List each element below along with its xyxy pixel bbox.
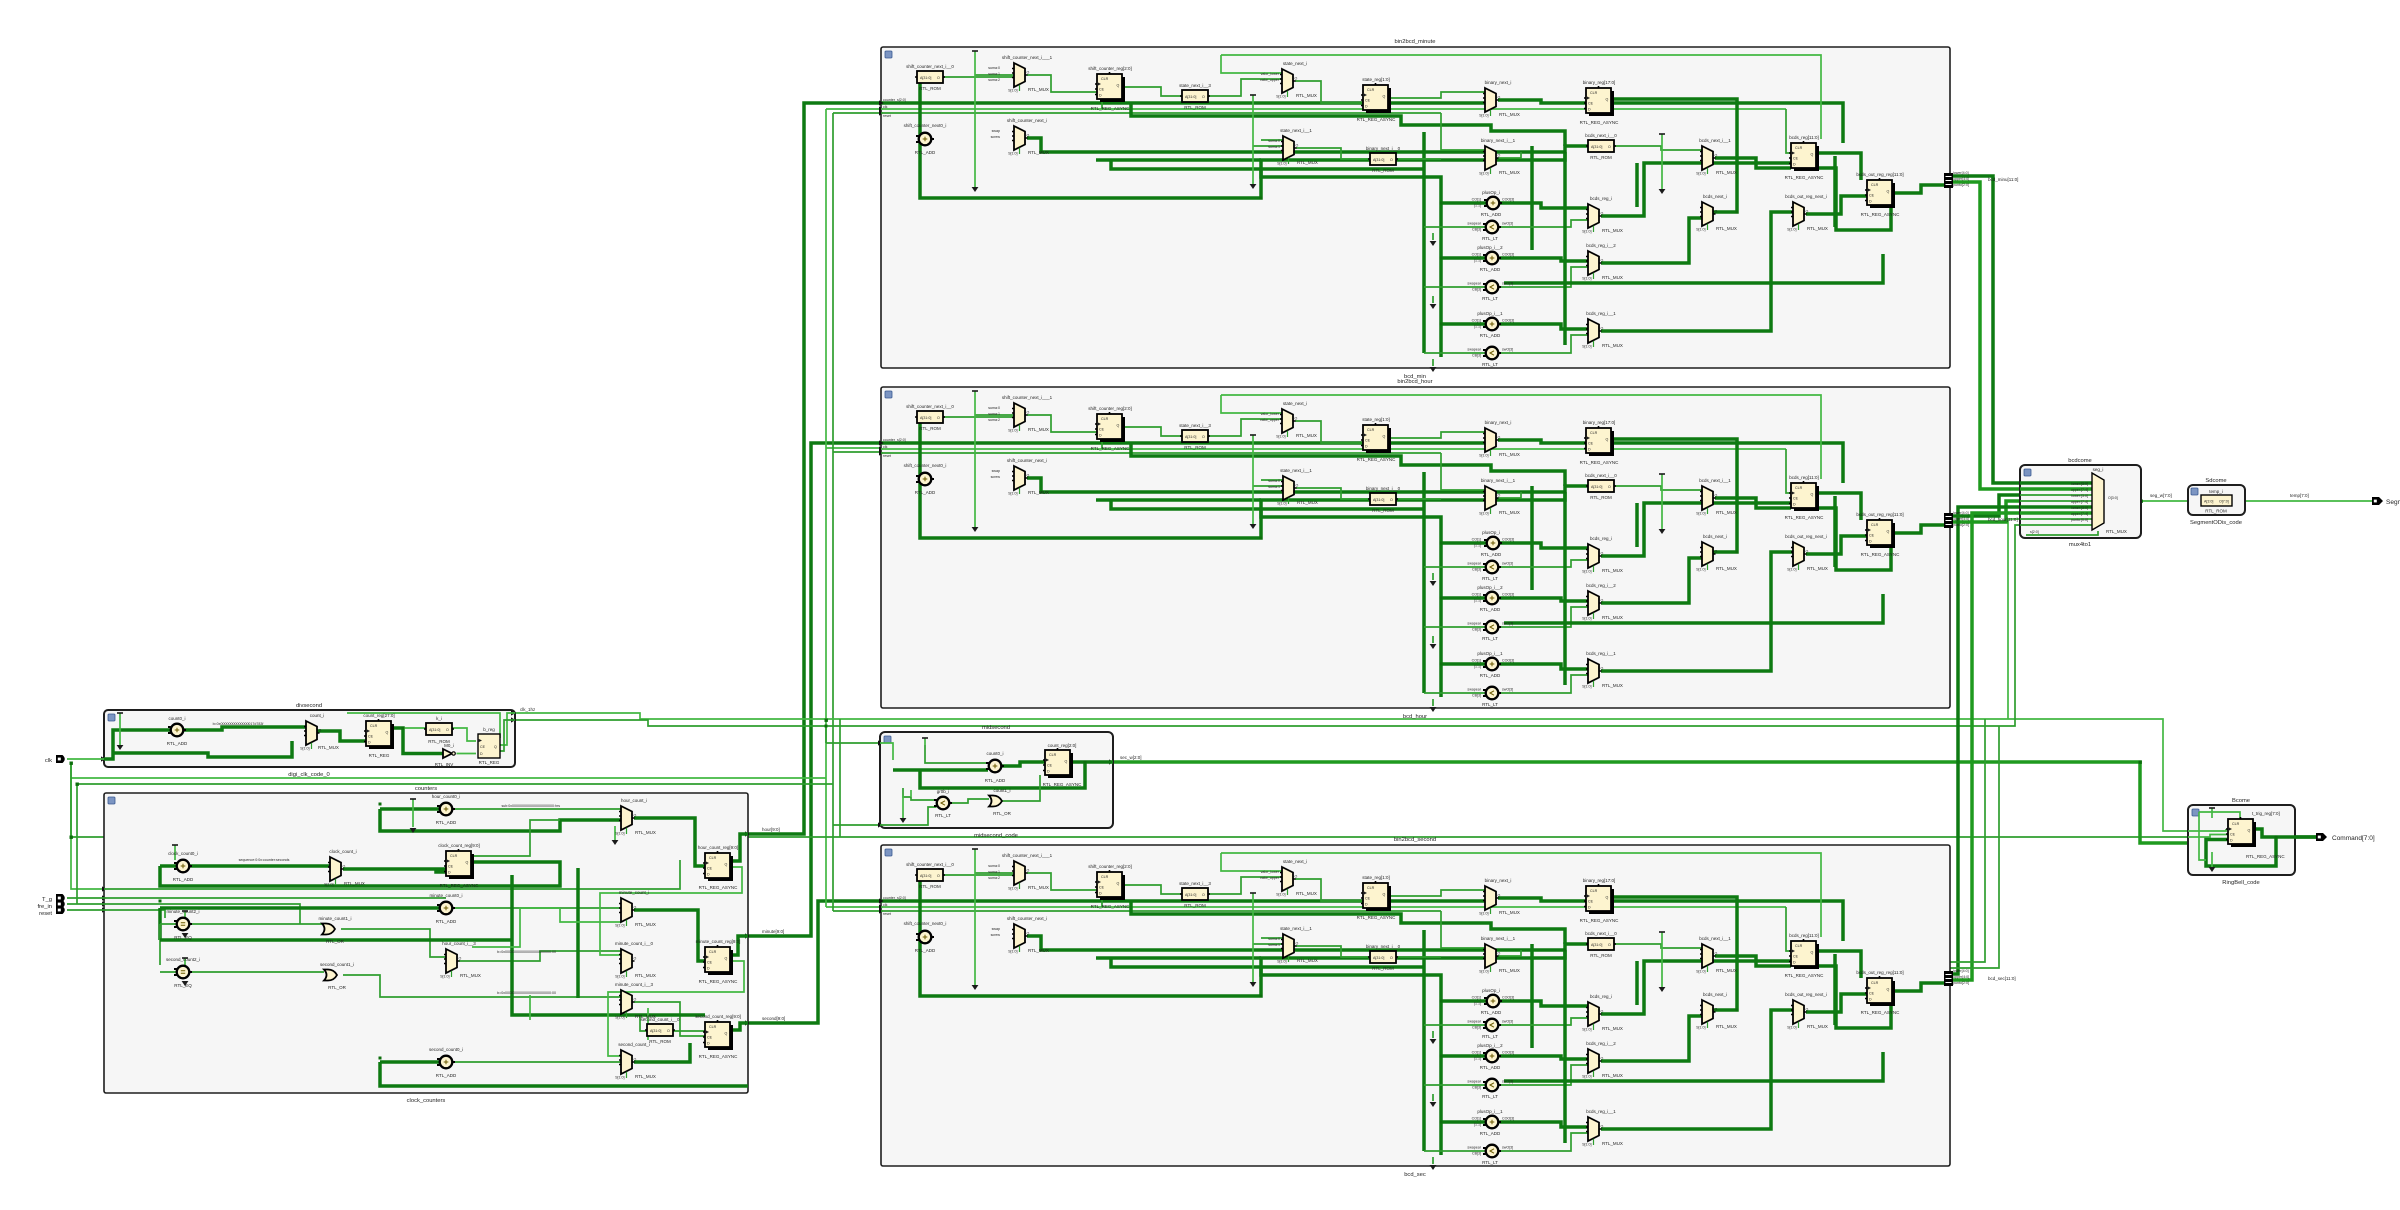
svg-text:seg_w[7:0]: seg_w[7:0] bbox=[2150, 493, 2172, 498]
wire clk long distribution bbox=[71, 763, 104, 889]
wire second eq/or row bbox=[190, 971, 325, 973]
wire bcd hour out to mux bbox=[1950, 495, 2020, 516]
svg-text:second_count_reg[9:0]: second_count_reg[9:0] bbox=[695, 1014, 741, 1019]
wire add in thick bbox=[893, 768, 988, 772]
svg-text:minute_count_i__0: minute_count_i__0 bbox=[615, 941, 654, 946]
wire reg q out bbox=[1071, 760, 1113, 764]
svg-text:RTL_MUX: RTL_MUX bbox=[2106, 529, 2127, 534]
svg-text:clock_count0_i: clock_count0_i bbox=[168, 851, 198, 856]
wire clk 1hz trunk bbox=[825, 109, 827, 907]
svg-text:sec_w[2:0]: sec_w[2:0] bbox=[1120, 755, 1142, 760]
wire bottom stub bbox=[880, 807, 937, 825]
svg-text:bcd_sec[11:0]: bcd_sec[11:0] bbox=[1988, 976, 2016, 981]
svg-text:RTL_OR: RTL_OR bbox=[328, 985, 346, 990]
reg minute_count_reg[9:0] bbox=[703, 945, 733, 975]
svg-text:punto[2:0]: punto[2:0] bbox=[1953, 523, 1969, 527]
svg-text:RTL_MUX: RTL_MUX bbox=[318, 745, 339, 750]
svg-text:A[3:0]: A[3:0] bbox=[2204, 500, 2213, 504]
svg-text:RTL_EQ: RTL_EQ bbox=[174, 935, 192, 940]
lt gr0b_i bbox=[934, 797, 952, 810]
mux second_count_i bbox=[615, 1050, 636, 1080]
svg-text:bcdcome: bcdcome bbox=[2068, 458, 2092, 464]
svg-text:lower[4:0]: lower[4:0] bbox=[1953, 171, 1969, 175]
svg-text:temp_i: temp_i bbox=[2209, 489, 2223, 494]
wire reg2 q out bbox=[498, 713, 515, 745]
svg-text:midsecond: midsecond bbox=[982, 725, 1010, 731]
svg-text:second_count2_i: second_count2_i bbox=[166, 957, 200, 962]
svg-text:b=0x00000000000000000000000:00: b=0x00000000000000000000000:00 bbox=[497, 950, 556, 954]
wire top bright loop bbox=[347, 713, 500, 738]
svg-text:lower:[3:0]: lower:[3:0] bbox=[2071, 494, 2088, 498]
wire clk in bbox=[2188, 829, 2226, 831]
svg-text:reset: reset bbox=[39, 911, 52, 917]
svg-text:Command[7:0]: Command[7:0] bbox=[2332, 835, 2375, 842]
svg-text:upper:[7:4]: upper:[7:4] bbox=[2071, 488, 2088, 492]
wire mux inputs bbox=[2020, 481, 2092, 485]
output port SegmentO bbox=[2372, 497, 2383, 505]
reg hour_count_reg[9:0] bbox=[703, 851, 733, 881]
svg-text:SegmentO[7:0]: SegmentO[7:0] bbox=[2386, 499, 2400, 506]
svg-text:Bcome: Bcome bbox=[2232, 798, 2250, 804]
wire add top in bbox=[925, 745, 988, 763]
svg-text:hour_count_i__3: hour_count_i__3 bbox=[442, 941, 476, 946]
svg-text:count0_i: count0_i bbox=[986, 751, 1003, 756]
svg-text:O[3:0]: O[3:0] bbox=[2108, 496, 2118, 500]
rom temp_i bbox=[2201, 495, 2232, 506]
wire reset trunk bbox=[832, 113, 834, 911]
wire mdsecond clk stub bbox=[826, 742, 880, 744]
svg-text:RTL_REG: RTL_REG bbox=[369, 753, 390, 758]
svg-text:RTL_REG_ASYNC: RTL_REG_ASYNC bbox=[1043, 782, 1082, 787]
svg-text:upper:[7:4]: upper:[7:4] bbox=[2071, 512, 2088, 516]
svg-text:RTL_REG_ASYNC: RTL_REG_ASYNC bbox=[699, 979, 738, 984]
svg-text:RTL_INV: RTL_INV bbox=[435, 762, 453, 767]
mux seg_i bbox=[2092, 473, 2104, 530]
svg-text:RTL_MUX: RTL_MUX bbox=[635, 973, 656, 978]
svg-text:bcd_hour: bcd_hour bbox=[1403, 714, 1427, 720]
svg-text:minute_count_reg[9:0]: minute_count_reg[9:0] bbox=[696, 939, 741, 944]
svg-text:RTL_ADD: RTL_ADD bbox=[985, 778, 1006, 783]
add minute_count0_i bbox=[437, 902, 455, 915]
wire rom out to reg2 bbox=[452, 728, 476, 741]
input port hour_in bbox=[56, 894, 65, 902]
svg-text:b=0x00000000000000000000000:00: b=0x00000000000000000000000:00 bbox=[497, 991, 556, 995]
svg-text:lower[4:0]: lower[4:0] bbox=[1953, 969, 1969, 973]
wire select bbox=[2026, 531, 2098, 535]
wire mid thick verticals bbox=[512, 875, 705, 1015]
const left bbox=[119, 713, 121, 745]
svg-text:count1_i: count1_i bbox=[993, 788, 1010, 793]
mux minute_count_i__0 bbox=[615, 949, 636, 979]
svg-text:RTL_MUX: RTL_MUX bbox=[635, 922, 656, 927]
input port clk bbox=[56, 755, 65, 763]
mux hour_count_i bbox=[615, 806, 636, 836]
svg-text:T_g: T_g bbox=[42, 897, 52, 903]
svg-text:count_i: count_i bbox=[310, 713, 325, 718]
svg-text:upper[4:0]: upper[4:0] bbox=[1953, 177, 1969, 181]
mux clock_count_i bbox=[324, 857, 345, 887]
svg-text:clk_1hz: clk_1hz bbox=[520, 707, 536, 712]
svg-text:punto[2:0]: punto[2:0] bbox=[1953, 183, 1969, 187]
svg-text:count_reg[27:0]: count_reg[27:0] bbox=[363, 713, 394, 718]
reg count_reg[2:0] bbox=[1043, 748, 1073, 778]
rom k_i bbox=[424, 723, 454, 735]
svg-text:t_trig_reg[7:0]: t_trig_reg[7:0] bbox=[2252, 811, 2280, 816]
svg-text:Sdcome: Sdcome bbox=[2205, 478, 2226, 484]
svg-text:minute_count_i: minute_count_i bbox=[619, 890, 650, 895]
svg-text:bcd_sec: bcd_sec bbox=[1404, 1172, 1426, 1178]
add count0_i bbox=[168, 724, 186, 737]
mux count_i bbox=[300, 721, 321, 751]
add hour_count0_i bbox=[437, 803, 455, 816]
svg-text:RTL_ADD: RTL_ADD bbox=[167, 741, 188, 746]
wire divsecond out 2 bbox=[515, 525, 2020, 726]
wire reset long bottom bbox=[71, 836, 2188, 838]
svg-text:hour[9:0]: hour[9:0] bbox=[762, 827, 780, 832]
svg-text:midsecond_code: midsecond_code bbox=[974, 833, 1018, 839]
wire second bus trunk bbox=[748, 901, 881, 1023]
svg-text:SegmentODis_code: SegmentODis_code bbox=[2190, 520, 2242, 526]
wire div loop bottom bbox=[113, 741, 292, 757]
svg-text:divsecond: divsecond bbox=[296, 703, 322, 709]
add count0_i bbox=[986, 760, 1004, 773]
svg-text:RTL_ROM: RTL_ROM bbox=[2205, 509, 2227, 514]
svg-text:RTL_REG: RTL_REG bbox=[479, 760, 500, 765]
output port Command bbox=[2316, 833, 2327, 841]
wire reg q loop bbox=[920, 762, 1085, 788]
wire hour reg q bbox=[731, 834, 748, 861]
wire q out jog bbox=[2253, 829, 2320, 837]
wire or out up bbox=[1002, 775, 1040, 801]
svg-text:temp[7:0]: temp[7:0] bbox=[2290, 493, 2309, 498]
svg-text:gr0b_i: gr0b_i bbox=[937, 789, 950, 794]
wire inputs bbox=[102, 886, 107, 891]
svg-text:hour_count_reg[9:0]: hour_count_reg[9:0] bbox=[698, 845, 738, 850]
or count1_i bbox=[989, 796, 1002, 807]
svg-text:RTL_OR: RTL_OR bbox=[993, 811, 1011, 816]
add second_count0_i bbox=[437, 1056, 455, 1069]
svg-text:s[2:0]: s[2:0] bbox=[2030, 530, 2039, 534]
svg-text:minute_count_i__3: minute_count_i__3 bbox=[615, 982, 654, 987]
wire minute bus trunk bbox=[748, 443, 881, 936]
svg-text:RTL_EQ: RTL_EQ bbox=[174, 983, 192, 988]
svg-text:upper:[7:4]: upper:[7:4] bbox=[2071, 500, 2088, 504]
svg-text:b=0x00000000000000017d783f: b=0x00000000000000017d783f bbox=[213, 722, 264, 726]
wire divsecond out clk1hz bbox=[515, 713, 2188, 831]
wire eq/or row bbox=[190, 923, 323, 925]
svg-text:mux4to1: mux4to1 bbox=[2069, 542, 2091, 548]
eq second_count2_i bbox=[174, 966, 192, 979]
wire h3 mux bbox=[459, 951, 621, 961]
svg-text:bin2bcd_minute: bin2bcd_minute bbox=[1395, 39, 1436, 45]
svg-text:clock_count_i: clock_count_i bbox=[329, 849, 356, 854]
svg-text:RTL_MUX: RTL_MUX bbox=[344, 881, 365, 886]
svg-text:second[9:0]: second[9:0] bbox=[762, 1016, 785, 1021]
wire long distribution 2 bbox=[77, 783, 833, 785]
svg-text:RTL_ROM: RTL_ROM bbox=[649, 1039, 671, 1044]
svg-text:RTL_MUX: RTL_MUX bbox=[460, 973, 481, 978]
wire trunk lower extras bbox=[1950, 719, 1985, 962]
or second_count1_i bbox=[324, 970, 337, 981]
wire ringbell out bbox=[2250, 835, 2320, 839]
wire mdsecond out to ringbell bbox=[1113, 762, 2188, 843]
wire reg q to inv bbox=[392, 728, 443, 754]
wire bcd minute out to mux bbox=[1950, 176, 2020, 483]
svg-text:RTL_ADD: RTL_ADD bbox=[436, 820, 457, 825]
wire clk in bbox=[880, 743, 893, 760]
svg-text:bin2bcd_second: bin2bcd_second bbox=[1394, 837, 1436, 843]
mux hour_count_i__3 bbox=[440, 949, 461, 979]
add clock_count0_i bbox=[174, 860, 192, 873]
svg-text:upper[4:0]: upper[4:0] bbox=[1953, 975, 1969, 979]
svg-text:RTL_REG_ASYNC: RTL_REG_ASYNC bbox=[699, 1054, 738, 1059]
inv M0_i bbox=[443, 749, 455, 758]
svg-text:RTL_LT: RTL_LT bbox=[935, 813, 951, 818]
svg-text:count0_i: count0_i bbox=[168, 716, 185, 721]
wire lt top in bbox=[903, 788, 937, 800]
junction dots bbox=[159, 900, 162, 903]
reg b_reg bbox=[478, 734, 500, 758]
svg-text:RTL_REG_ASYNC: RTL_REG_ASYNC bbox=[699, 885, 738, 890]
svg-text:second_count_i__0: second_count_i__0 bbox=[640, 1017, 680, 1022]
wire mdsecond rst stub bbox=[833, 824, 880, 826]
junction dots global bbox=[70, 762, 73, 765]
or minute_count1_i bbox=[322, 924, 335, 935]
svg-text:RTL_ADD: RTL_ADD bbox=[436, 919, 457, 924]
svg-text:O[7:0]: O[7:0] bbox=[2219, 500, 2229, 504]
junction dot bbox=[1084, 761, 1087, 764]
svg-text:RTL_ADD: RTL_ADD bbox=[173, 877, 194, 882]
svg-text:lower:[3:0]: lower:[3:0] bbox=[2071, 482, 2088, 486]
svg-text:hour_count0_i: hour_count0_i bbox=[432, 794, 461, 799]
wire extra trunk vertical bbox=[839, 719, 841, 837]
wire lt out to or bbox=[950, 799, 990, 803]
svg-text:count_reg[2:0]: count_reg[2:0] bbox=[1048, 743, 1077, 748]
svg-text:bin2bcd_hour: bin2bcd_hour bbox=[1397, 379, 1432, 385]
reg second_count_reg[9:0] bbox=[703, 1020, 733, 1050]
wire reg q to rom bbox=[403, 727, 426, 729]
svg-text:digi_clk_code_0: digi_clk_code_0 bbox=[288, 772, 330, 778]
svg-text:RingBell_code: RingBell_code bbox=[2222, 880, 2259, 886]
svg-text:sequence:0:0x:counter:seconds: sequence:0:0x:counter:seconds bbox=[239, 858, 290, 862]
wire minute row bbox=[160, 908, 440, 940]
svg-text:counters: counters bbox=[415, 786, 437, 792]
svg-text:seg_i: seg_i bbox=[2093, 467, 2104, 472]
wire second add row bbox=[380, 1062, 520, 1086]
wire ce in bbox=[2188, 835, 2228, 838]
mux minute_count_i__3 bbox=[615, 990, 636, 1020]
svg-text:punto:[0:0]: punto:[0:0] bbox=[2071, 518, 2088, 522]
svg-text:RTL_MUX: RTL_MUX bbox=[635, 1074, 656, 1079]
wire hour row bbox=[380, 807, 440, 811]
svg-text:clock_count_reg[9:0]: clock_count_reg[9:0] bbox=[438, 843, 480, 848]
svg-text:fre_in: fre_in bbox=[37, 904, 52, 910]
svg-text:RTL_OR: RTL_OR bbox=[326, 939, 344, 944]
wire m0 mux out bbox=[634, 1002, 705, 1036]
const markers bbox=[412, 799, 414, 827]
svg-text:RTL_ADD: RTL_ADD bbox=[436, 1073, 457, 1078]
wire rom sc to reg bbox=[640, 1015, 705, 1031]
wire div input bbox=[104, 730, 171, 759]
svg-text:minute_count0_i: minute_count0_i bbox=[429, 893, 462, 898]
wire big bottom thick bbox=[520, 1084, 748, 1088]
reg count_reg[27:0] bbox=[364, 719, 394, 749]
mux minute_count_i bbox=[615, 898, 636, 928]
svg-text:lower[4:0]: lower[4:0] bbox=[1953, 511, 1969, 515]
wire mux out to reg bbox=[317, 731, 366, 741]
wire mux out to segment rom bbox=[2104, 500, 2201, 502]
const markers bbox=[924, 738, 926, 745]
svg-text:k_i: k_i bbox=[436, 716, 442, 721]
svg-text:second_count_i: second_count_i bbox=[618, 1042, 650, 1047]
svg-text:RTL_REG_ASYNC: RTL_REG_ASYNC bbox=[440, 883, 479, 888]
svg-text:lower:[3:0]: lower:[3:0] bbox=[2071, 506, 2088, 510]
wire clock row bbox=[160, 864, 177, 868]
svg-text:second_count1_i: second_count1_i bbox=[320, 962, 354, 967]
svg-text:bcd_minu[11:0]: bcd_minu[11:0] bbox=[1988, 177, 2018, 182]
svg-text:minute[9:0]: minute[9:0] bbox=[762, 929, 784, 934]
svg-text:upper[4:0]: upper[4:0] bbox=[1953, 517, 1969, 521]
svg-text:minute_count2_i: minute_count2_i bbox=[166, 909, 199, 914]
svg-text:second_count0_i: second_count0_i bbox=[429, 1047, 463, 1052]
reg t_trig_reg bbox=[2226, 817, 2256, 847]
svg-text:M0_i: M0_i bbox=[444, 743, 454, 748]
wire bcd second out to mux bbox=[1950, 507, 2020, 974]
reg clock_count_reg[9:0] bbox=[444, 849, 474, 879]
svg-text:sub:0x000000000000000000000:hr: sub:0x000000000000000000000:hrs bbox=[501, 804, 560, 808]
input port reset bbox=[56, 906, 65, 914]
wire segment rom out to port bbox=[2232, 500, 2376, 502]
svg-text:clock_counters: clock_counters bbox=[407, 1098, 446, 1104]
wire add out to mux bbox=[184, 727, 307, 730]
svg-text:RTL_REG_ASYNC: RTL_REG_ASYNC bbox=[2246, 854, 2285, 859]
wire reg loops bright bbox=[472, 908, 621, 947]
svg-text:clk: clk bbox=[45, 758, 52, 764]
svg-text:minute_count1_i: minute_count1_i bbox=[318, 916, 351, 921]
svg-text:punto[2:0]: punto[2:0] bbox=[1953, 981, 1969, 985]
wire d loop bbox=[2206, 837, 2276, 866]
eq minute_count2_i bbox=[174, 918, 192, 931]
wire inv out to reg2 bbox=[457, 753, 477, 755]
input port minute_in bbox=[56, 900, 65, 908]
rom second_count_i__0 bbox=[645, 1024, 675, 1036]
svg-text:hour_count_i: hour_count_i bbox=[621, 798, 647, 803]
svg-text:b_reg: b_reg bbox=[483, 727, 495, 732]
svg-text:RTL_MUX: RTL_MUX bbox=[635, 830, 656, 835]
wire add out to reg bbox=[1002, 762, 1046, 766]
wire hour bus trunk bbox=[748, 103, 881, 834]
svg-text:bcd_hour[11:0]: bcd_hour[11:0] bbox=[1988, 517, 2018, 522]
